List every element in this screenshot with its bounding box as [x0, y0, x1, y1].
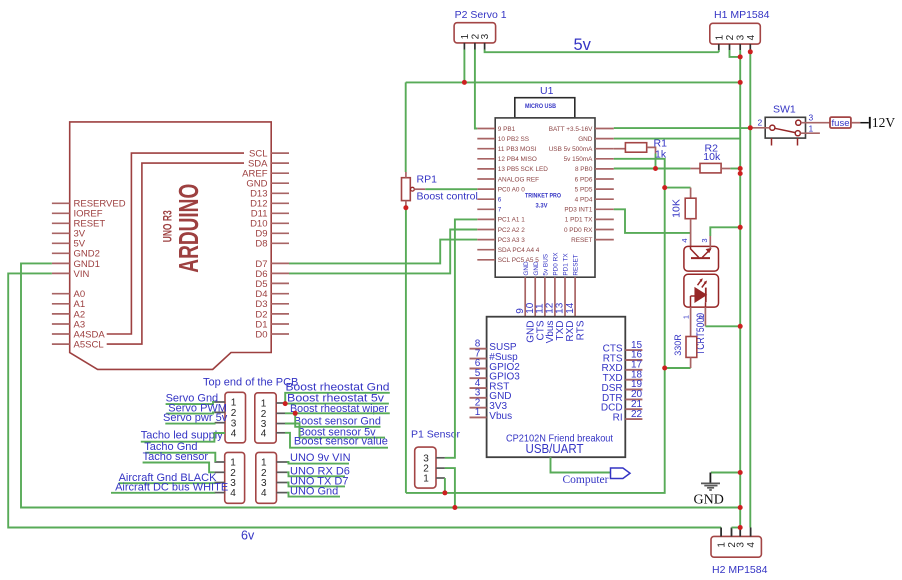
ic CP2102N left pin 4 stub	[470, 387, 487, 389]
connector C tacho header body	[225, 452, 245, 503]
tcrt5000 led symbol	[691, 278, 708, 307]
connector P2 pin 2 stub	[474, 43, 476, 50]
junction P1 pin2 and bottom rail	[452, 505, 457, 510]
ic CP2102N breakout body	[487, 317, 626, 458]
svg-text:PC3 A3 3: PC3 A3 3	[498, 237, 525, 244]
ic CP2102N right pin 17 stub	[625, 369, 642, 371]
arduino pin 5V stub	[52, 242, 70, 244]
tcrt5000 phototransistor body	[684, 246, 719, 271]
arduino pin AREF stub	[271, 172, 289, 174]
svg-text:Boost rheostat Gnd: Boost rheostat Gnd	[286, 381, 390, 393]
connector A pin 3 stub	[215, 422, 225, 424]
svg-text:10 PB2 SS: 10 PB2 SS	[498, 136, 529, 143]
connector C pin 3 stub	[214, 482, 224, 484]
svg-text:BATT +3.5-16V: BATT +3.5-16V	[549, 126, 593, 133]
svg-text:USB/UART: USB/UART	[526, 441, 584, 456]
ic CP2102N right pin 16 stub	[625, 359, 642, 361]
switch SW1 pin 3 lead to fuse	[801, 122, 830, 124]
svg-text:14: 14	[565, 302, 576, 314]
resistor R1 body	[625, 143, 646, 153]
connector B pin 1 stub	[276, 402, 285, 404]
switch SW1 lever	[775, 128, 796, 132]
wire B pin1 to Boost rheostat Gnd underline	[285, 393, 390, 404]
arduino pin D8 stub	[271, 242, 289, 244]
wire CP2102N to computer pointer	[551, 457, 611, 472]
switch SW1 body	[765, 117, 805, 138]
battery 12V terminal bar	[869, 117, 871, 129]
wire P1 pin3 to U1 PC1	[445, 219, 477, 457]
svg-text:A5SCL: A5SCL	[74, 340, 104, 351]
wire horizontal 5v distribution y82	[406, 81, 741, 83]
svg-text:1: 1	[460, 33, 471, 39]
ic U1 bottom pin 5v BUS link to CP2102N	[544, 277, 546, 317]
arduino pin D1 stub	[271, 323, 289, 325]
svg-text:ARDUINO: ARDUINO	[173, 184, 204, 273]
wire loop to 10K resistor top	[665, 187, 691, 189]
ic CP2102N right pin 18 stub	[625, 379, 642, 381]
svg-text:UNO 9v VIN: UNO 9v VIN	[290, 452, 351, 464]
connector A pin 1 stub	[215, 401, 225, 403]
svg-text:4: 4	[261, 428, 267, 439]
arduino pin 3V stub	[52, 232, 70, 234]
svg-text:RI: RI	[613, 413, 623, 424]
svg-text:3: 3	[480, 33, 491, 39]
ic U1 left pin SDA PC4 A4 4 stub	[477, 249, 495, 251]
arduino pin D5 stub	[271, 282, 289, 284]
svg-text:D8: D8	[255, 239, 267, 250]
ic U1 right pin USB 5v 500mA stub	[595, 148, 614, 150]
svg-text:P1 Sensor: P1 Sensor	[411, 429, 461, 441]
ic CP2102N left pin 2 stub	[470, 407, 487, 409]
svg-text:3: 3	[809, 113, 814, 123]
wire P1 pin1 to loop bottom	[444, 478, 446, 493]
junction H1 pin4	[748, 49, 753, 54]
fuse F1 body	[830, 117, 851, 128]
ic CP2102N right pin 21 stub	[625, 408, 642, 410]
ic CP2102N left pin 1 stub	[470, 416, 487, 418]
junction P1 pin1 and loop bottom	[442, 490, 447, 495]
svg-text:P2 Servo 1: P2 Servo 1	[455, 9, 507, 21]
switch SW1 pin 2 lead	[750, 127, 769, 129]
wire fuse to battery 12V	[860, 122, 869, 124]
svg-text:GND: GND	[694, 492, 724, 507]
svg-text:H2 MP1584: H2 MP1584	[712, 564, 768, 576]
ic U1 left pin PC1 A1 1 stub	[477, 218, 495, 220]
ic CP2102N left pin 8 stub	[470, 348, 487, 350]
connector B pin 2 stub	[276, 412, 285, 414]
ic U1 right pin 5v 150mA stub	[595, 158, 614, 160]
resistor R1 left lead	[614, 148, 626, 150]
switch SW1 pin 1 lead	[800, 132, 820, 134]
connector P1 Sensor body	[415, 447, 436, 488]
svg-text:USB 5v 500mA: USB 5v 500mA	[549, 146, 593, 153]
ic U1 left pin PC3 A3 3 stub	[477, 239, 495, 241]
svg-text:0 PD0 RX: 0 PD0 RX	[564, 227, 593, 234]
arduino pin D4 stub	[271, 293, 289, 295]
junction B pin1 labels	[283, 401, 288, 406]
ic U1 micro usb box	[515, 98, 575, 118]
svg-text:1: 1	[809, 123, 814, 133]
connector H2 MP1584 body	[711, 536, 761, 557]
wire ground symbol to vertical x740	[711, 472, 740, 474]
svg-text:1: 1	[717, 542, 728, 548]
wire Servo pwr 5v to A pin3	[165, 422, 214, 425]
svg-text:4 PD4: 4 PD4	[575, 197, 593, 204]
wire U1 PD3 INT1 to TCRT pin4 node	[614, 209, 691, 233]
ic U1 left pin 13 PB5 SCK LED stub	[477, 168, 495, 170]
junction tcrt pin3 and x740	[738, 225, 743, 230]
resistor 10K top lead	[690, 188, 692, 199]
svg-text:5v BUS: 5v BUS	[543, 254, 550, 276]
connector H1 pin 1 stub	[718, 44, 720, 50]
junction x740 and y82 line	[738, 80, 743, 85]
svg-text:22: 22	[631, 409, 643, 420]
potentiometer RP1 top lead	[405, 172, 407, 178]
resistor R2 right lead	[721, 168, 730, 170]
junction x740 lower	[738, 171, 743, 176]
svg-text:8 PB0: 8 PB0	[575, 166, 593, 173]
svg-text:11 PB3 MOSI: 11 PB3 MOSI	[498, 146, 537, 153]
svg-text:3: 3	[736, 542, 747, 548]
ic U1 left pin 10 PB2 SS stub	[477, 138, 495, 140]
svg-text:12 PB4 MISO: 12 PB4 MISO	[498, 156, 537, 163]
arduino pin A4SDA stub	[52, 333, 70, 335]
connector B boost header body	[255, 393, 276, 443]
wire B pin3 to Boost sensor 5v underline	[285, 424, 385, 438]
svg-text:RESET: RESET	[571, 237, 592, 244]
junction H1 pin2 pin3	[738, 54, 743, 59]
arduino pin D3 stub	[271, 303, 289, 305]
svg-text:Aircraft DC bus WHITE: Aircraft DC bus WHITE	[115, 481, 228, 493]
wire U1 BATT to H1 pin4 and SW1 pin2	[614, 127, 751, 129]
ic CP2102N right pin 19 stub	[625, 389, 642, 391]
svg-text:10k: 10k	[703, 151, 721, 163]
connector C pin 4 stub	[214, 492, 224, 494]
ic CP2102N left pin 5 stub	[470, 377, 487, 379]
junction RP1 bottom	[403, 205, 408, 210]
svg-text:Vbus: Vbus	[489, 411, 512, 422]
svg-text:H1 MP1584: H1 MP1584	[714, 9, 770, 21]
switch SW1 contacts	[770, 125, 775, 130]
fuse right lead	[851, 122, 860, 124]
arduino pin A5SCL stub	[52, 343, 70, 345]
wire Servo Gnd to A pin1	[166, 402, 215, 404]
ic U1 bottom pin GND link to CP2102N	[524, 277, 526, 317]
connector D pin 1 stub	[277, 461, 288, 463]
svg-text:Servo pwr 5v: Servo pwr 5v	[163, 412, 228, 424]
svg-text:13 PB5 SCK LED: 13 PB5 SCK LED	[498, 166, 548, 173]
switch SW1 mount stub left	[771, 138, 773, 145]
wire arduino D7 to U1 PC3	[289, 240, 477, 264]
resistor R1 right lead	[647, 147, 656, 153]
wire RP1 wiper to U1 PC0	[425, 188, 477, 190]
ic U1 right pin 4 PD4 stub	[595, 198, 614, 200]
svg-text:3.3V: 3.3V	[536, 203, 549, 210]
connector D uno header body	[256, 452, 277, 503]
ic U1 right pin 0 PD0 RX stub	[595, 229, 614, 231]
arduino pin D12 stub	[271, 202, 289, 204]
svg-text:1: 1	[475, 407, 481, 418]
arduino pin A0 stub	[52, 293, 70, 295]
arduino UNO R3 module outline	[70, 122, 272, 370]
wire Tacho led supply to A pin4	[141, 433, 225, 442]
connector H2 pin 1 stub	[720, 528, 722, 537]
ic U1 left pin 12 PB4 MISO stub	[477, 158, 495, 160]
svg-text:5v 150mA: 5v 150mA	[564, 156, 594, 163]
ic U1 bottom pin PD1 TX link to CP2102N	[564, 277, 566, 317]
arduino pin RESERVED stub	[52, 202, 70, 204]
wire Boost rheostat 5v underline	[285, 403, 389, 405]
tcrt5000 pin1 lead to 330R	[690, 307, 692, 336]
connector A pin 4 stub	[215, 432, 225, 434]
connector H1 pin 2 stub	[729, 44, 731, 50]
junction B pin2 labels	[293, 411, 298, 416]
svg-text:2: 2	[725, 34, 736, 40]
connector A pin 2 stub	[215, 411, 225, 413]
svg-text:4: 4	[261, 488, 267, 499]
resistor 10K bottom lead to TCRT pin4	[690, 219, 692, 247]
junction loop and 10K	[662, 185, 667, 190]
ic CP2102N left pin 3 stub	[470, 397, 487, 399]
ic U1 left pin PC2 A2 2 stub	[477, 229, 495, 231]
junction H2 pin2 pin3	[738, 525, 743, 530]
svg-text:Computer: Computer	[563, 474, 609, 486]
wire P2 pin3 5v line to H1 pin1	[485, 50, 719, 53]
arduino pin A2 stub	[52, 313, 70, 315]
svg-text:4: 4	[746, 542, 757, 548]
arduino pin D2 stub	[271, 313, 289, 315]
wire P1 pin2 to bottom rail	[445, 468, 455, 507]
ic CP2102N right pin 22 stub	[625, 418, 642, 420]
svg-text:GND: GND	[578, 136, 593, 143]
arduino pin SDA stub	[271, 162, 289, 164]
arduino pin GND stub	[271, 182, 289, 184]
svg-text:4: 4	[230, 488, 236, 499]
wire arduino GND1 to bottom rail	[21, 263, 740, 507]
potentiometer RP1 wiper lead	[414, 188, 425, 190]
ic CP2102N left pin 6 stub	[470, 368, 487, 370]
wire tcrt pin3 to vertical x740	[710, 227, 740, 236]
junction R2 and x740	[738, 166, 743, 171]
wire arduino D6 to U1 PC2	[289, 230, 477, 274]
wire Aircraft DC bus WHITE to C pin4	[111, 492, 214, 494]
wire R1 to 8 PB0 row	[655, 154, 657, 169]
svg-text:PC0 A0 0: PC0 A0 0	[498, 186, 525, 193]
wire B pin4 to Boost sensor value underline	[285, 433, 388, 448]
connector H2 pin 2 stub	[731, 528, 733, 537]
wire R2 to vertical x740	[730, 168, 740, 170]
svg-text:RESET: RESET	[573, 254, 580, 275]
ic U1 right pin PD3 INT1 stub	[595, 208, 614, 210]
svg-text:330R: 330R	[673, 334, 684, 356]
ic U1 left pin SCL PC5 A5 5 stub	[477, 259, 495, 261]
wire loop to 330R resistor bottom	[665, 367, 691, 369]
wire loop upper left vertical to RP1 top	[405, 82, 407, 172]
wire U1 5v150mA loop right and bottom	[406, 159, 665, 493]
wire loop left vertical to RP1 bottom	[405, 208, 407, 493]
svg-text:1: 1	[681, 315, 690, 319]
wire Servo PWM to A pin2	[166, 412, 214, 413]
tcrt5000 phototransistor symbol	[690, 246, 711, 258]
svg-text:TRINKET PRO: TRINKET PRO	[525, 193, 561, 200]
junction P2 pin1 and 5v distribution	[462, 80, 467, 85]
svg-text:GND: GND	[523, 261, 530, 276]
wire H1 pin1 joins 5v line	[718, 50, 720, 52]
arduino pin D0 stub	[271, 333, 289, 335]
ic CP2102N right pin 15 stub	[625, 349, 642, 351]
svg-text:PD3 INT1: PD3 INT1	[564, 207, 593, 214]
connector P2 Servo body	[454, 23, 496, 43]
svg-text:5v: 5v	[574, 36, 592, 54]
svg-text:4: 4	[746, 34, 757, 40]
wire U1 GND row to vertical x740	[614, 138, 740, 140]
wire UNO RX D6 underline	[287, 472, 345, 476]
resistor 330R bottom lead	[690, 357, 692, 368]
ic U1 right pin BATT +3.5-16V stub	[595, 128, 614, 130]
potentiometer RP1 wiper terminal	[411, 187, 415, 191]
potentiometer RP1 bottom lead	[405, 201, 407, 208]
ic U1 left pin 7 stub	[477, 208, 495, 210]
arduino pin A3 stub	[52, 323, 70, 325]
connector P1 pin 3 stub	[436, 457, 445, 459]
wire tcrt pin2 to vertical x740	[705, 325, 740, 327]
wire H2 pin2 to pin3 junction	[732, 527, 741, 529]
connector H2 pin 3 stub	[739, 528, 741, 537]
arduino pin D11 stub	[271, 212, 289, 214]
wire P2 pin1 down to 5v node	[463, 50, 465, 83]
svg-text:1 PD1 TX: 1 PD1 TX	[565, 217, 593, 224]
svg-text:5 PD5: 5 PD5	[575, 186, 593, 193]
svg-text:1: 1	[231, 398, 237, 409]
tcrt5000 pin2 lead	[704, 307, 706, 326]
wire H1 pin2 to pin3 vertical	[730, 50, 741, 57]
ic U1 bottom pin PD0 RX link to CP2102N	[554, 277, 556, 317]
arduino pin VIN stub	[52, 272, 70, 274]
junction ground and x740	[738, 470, 743, 475]
svg-text:6v: 6v	[241, 528, 255, 542]
wire Tacho Gnd to C pin1	[145, 453, 215, 462]
svg-text:VIN: VIN	[74, 269, 90, 280]
svg-text:U1: U1	[540, 85, 554, 97]
wire H1 pin3 long vertical to H2 pin3	[739, 50, 741, 528]
arduino pin SCL stub	[271, 152, 289, 154]
connector P1 pin 2 stub	[436, 467, 445, 469]
svg-text:PD0 RX: PD0 RX	[553, 252, 560, 276]
svg-text:12V: 12V	[872, 115, 896, 130]
wire B pin2 to Boost sensor Gnd underline	[295, 413, 380, 427]
svg-text:1: 1	[714, 34, 725, 40]
connector D pin 2 stub	[277, 471, 288, 473]
svg-text:Boost sensor value: Boost sensor value	[294, 436, 388, 448]
arduino pin A1 stub	[52, 303, 70, 305]
wire UNO 9v VIN underline	[287, 462, 349, 464]
svg-text:GND: GND	[533, 261, 540, 276]
ic U1 right pin RESET stub	[595, 239, 614, 241]
svg-text:SW1: SW1	[773, 104, 796, 116]
connector P2 pin 3 stub	[484, 43, 486, 50]
arduino pin D6 stub	[271, 272, 289, 274]
connector D pin 4 stub	[277, 492, 288, 494]
svg-text:2: 2	[758, 118, 763, 128]
wire UNO TX D7 underline	[287, 483, 345, 487]
junction BATT SW1 H1 pin4	[748, 125, 753, 130]
svg-text:10K: 10K	[671, 199, 683, 218]
ic CP2102N left pin 7 stub	[470, 358, 487, 360]
connector B pin 3 stub	[276, 423, 285, 425]
connector C pin 1 stub	[214, 461, 224, 463]
ground symbol	[701, 473, 720, 491]
junction tcrt pin2 and x740	[738, 324, 743, 329]
wire Tacho sensor to C pin2	[143, 463, 215, 473]
connector C pin 2 stub	[214, 471, 224, 473]
arduino pin IOREF stub	[52, 212, 70, 214]
ic CP2102N right pin 20 stub	[625, 398, 642, 400]
potentiometer RP1 body	[402, 178, 411, 201]
switch SW1 mount stub right	[797, 138, 799, 145]
wire U1 8 PB0 row to R2	[614, 168, 691, 170]
arduino pin D9 stub	[271, 232, 289, 234]
junction loop and 330R	[662, 366, 667, 371]
svg-text:PD1 TX: PD1 TX	[563, 253, 570, 276]
connector P1 pin 1 stub	[436, 477, 445, 479]
svg-text:6 PD6: 6 PD6	[575, 176, 593, 183]
arduino internal link SCL to A4SDA	[107, 153, 244, 334]
svg-text:Tacho sensor: Tacho sensor	[143, 451, 209, 463]
connector H1 MP1584 body	[710, 23, 761, 44]
arduino pin D10 stub	[271, 222, 289, 224]
svg-text:1: 1	[423, 474, 429, 485]
svg-text:4: 4	[231, 429, 237, 440]
ic U1 bottom pin GND link to CP2102N	[534, 277, 536, 317]
arduino pin GND2 stub	[52, 252, 70, 254]
ic U1 left pin ANALOG REF stub	[477, 178, 495, 180]
arduino pin GND1 stub	[52, 262, 70, 264]
svg-text:SDA PC4 A4 4: SDA PC4 A4 4	[498, 247, 540, 254]
svg-text:3: 3	[700, 238, 709, 242]
ic U1 left pin 6 stub	[477, 198, 495, 200]
net pointer Computer	[611, 468, 631, 479]
wire P2 pin2 to U1 pin 9 PB1	[475, 50, 477, 129]
arduino internal link SDA to A5SCL	[107, 163, 244, 344]
svg-text:fuse: fuse	[832, 118, 850, 129]
svg-text:7: 7	[498, 207, 502, 214]
svg-text:RTS: RTS	[575, 320, 586, 340]
wire UNO Gnd underline	[287, 493, 340, 497]
ic U1 right pin 6 PD6 stub	[595, 178, 614, 180]
connector D pin 3 stub	[277, 482, 288, 484]
svg-text:D0: D0	[255, 329, 267, 340]
connector A servo header body	[225, 392, 246, 443]
tcrt5000 pin3 lead	[709, 236, 711, 249]
connector B pin 4 stub	[276, 432, 285, 434]
arduino pin RESET stub	[52, 222, 70, 224]
ic U1 left pin 11 PB3 MOSI stub	[477, 148, 495, 150]
connector H2 pin 4 stub	[750, 528, 752, 537]
wire B pin2 Boost rheostat wiper underline	[285, 412, 390, 414]
svg-text:ANALOG REF: ANALOG REF	[498, 176, 539, 183]
svg-text:6: 6	[498, 197, 502, 204]
ic U1 left pin 9 PB1 stub	[477, 128, 495, 130]
connector H1 pin 3 stub	[739, 44, 741, 50]
wire arduino VIN 6v rail to H2 pin1	[8, 273, 721, 527]
svg-text:4: 4	[680, 238, 689, 242]
junction bottom rail and x740	[738, 505, 743, 510]
wire Aircraft Gnd BLACK to C pin3	[119, 482, 215, 485]
ic U1 right pin 1 PD1 TX stub	[595, 218, 614, 220]
ic U1 right pin 5 PD5 stub	[595, 188, 614, 190]
svg-text:RP1: RP1	[417, 174, 438, 186]
arduino pin D13 stub	[271, 192, 289, 194]
